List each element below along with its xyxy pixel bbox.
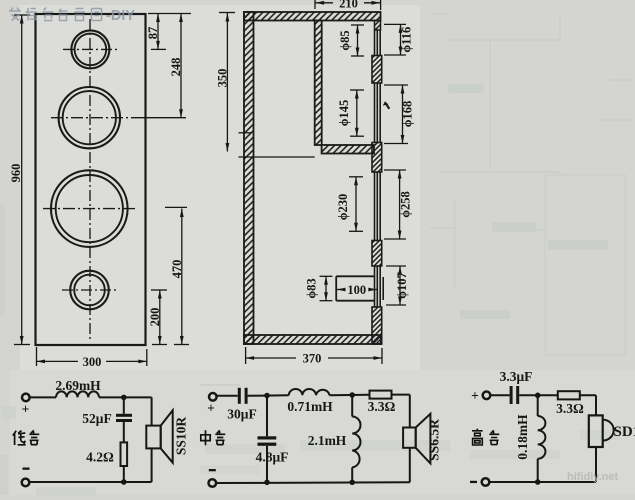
wire + to cap (high) [490, 394, 510, 396]
partition wall [315, 21, 322, 146]
svg-text:350: 350 [215, 69, 229, 88]
terminal - (mid) [209, 479, 217, 487]
dim 350 [219, 13, 315, 158]
svg-text:4.8μF: 4.8μF [256, 450, 289, 465]
wire capacitor to resistor (bass) [123, 422, 125, 442]
svg-text:SS10R: SS10R [174, 417, 189, 456]
baffle woofer hole rebate [375, 172, 381, 241]
svg-text:4.2Ω: 4.2Ω [86, 450, 114, 465]
resistor R3 3.3ohm (high series) [558, 391, 580, 399]
resistor R2 3.3ohm (mid series) [370, 391, 392, 399]
dim 370 [246, 347, 382, 364]
dim 300 [37, 347, 147, 366]
label high channel [472, 429, 499, 445]
svg-text:87: 87 [146, 27, 160, 40]
wire down to tweeter [595, 395, 597, 415]
panel vertical centerline [89, 19, 91, 341]
svg-text:248: 248 [169, 58, 183, 77]
watermark top-left [9, 8, 135, 25]
dim phi258 [384, 170, 406, 239]
wire down to mid speaker [409, 395, 411, 428]
terminal + (mid) [209, 393, 217, 401]
svg-text:+: + [22, 402, 30, 417]
svg-text:3.3Ω: 3.3Ω [368, 399, 396, 414]
dim 200 [151, 290, 167, 345]
dim phi83 [320, 276, 333, 300]
baffle tweeter hole rebate [375, 30, 381, 56]
shelf board [322, 145, 374, 154]
dim 100 [336, 289, 377, 291]
svg-text:ϕ258: ϕ258 [399, 191, 413, 218]
svg-text:370: 370 [303, 352, 322, 366]
node E (mid bottom junction 1) [264, 480, 270, 486]
wire resistor to speaker (mid) [392, 394, 410, 396]
svg-text:hifidiy.net: hifidiy.net [567, 471, 618, 483]
node A (bass top junction) [121, 395, 127, 401]
terminal + (bass) [22, 394, 30, 402]
high bottom rail wire [489, 481, 596, 483]
svg-text:-DIY: -DIY [106, 8, 135, 24]
svg-text:ϕ116: ϕ116 [400, 27, 414, 53]
svg-text:ϕ83: ϕ83 [305, 278, 319, 298]
svg-text:ϕ85: ϕ85 [338, 30, 352, 50]
wire down to woofer (bass) [151, 397, 153, 425]
svg-text:300: 300 [83, 355, 102, 369]
svg-text:ϕ107: ϕ107 [395, 272, 409, 299]
inductor L1 2.69mH (bass series) [56, 391, 99, 397]
wire L3 to bottom rail [351, 467, 353, 482]
svg-text:SD1: SD1 [614, 424, 635, 440]
node C (mid junction 1) [264, 393, 270, 399]
label bass channel [13, 430, 40, 445]
node G (high junction) [535, 393, 541, 399]
svg-text:SS6.5R: SS6.5R [427, 419, 442, 461]
tweeter centerline [63, 48, 118, 50]
baffle block between tweeter and mid holes [372, 56, 382, 84]
port centerline [62, 289, 118, 291]
wire + to cap (mid) [216, 395, 237, 397]
mid bottom rail wire [216, 481, 410, 484]
dim 470 [165, 207, 189, 344]
baffle block at shelf [372, 143, 382, 173]
svg-text:2.1mH: 2.1mH [308, 433, 347, 448]
wire cap to inductor (mid top rail) [248, 394, 289, 397]
dim 87 [148, 14, 191, 50]
dim phi145 [350, 90, 364, 136]
cabinet bottom wall [244, 335, 381, 344]
cabinet left wall [244, 12, 254, 344]
baffle block between woofer and port [372, 241, 382, 267]
dim 210 [315, 0, 381, 10]
inductor L4 0.18mH (high shunt) [537, 395, 539, 416]
svg-text:+: + [207, 401, 215, 416]
port hole circles [70, 271, 109, 310]
svg-text:0.18mH: 0.18mH [515, 414, 530, 460]
terminal - (high) [482, 478, 490, 486]
tweeter SD19 dome [589, 415, 603, 447]
node D (mid junction 2) [349, 392, 355, 398]
svg-text:ϕ168: ϕ168 [401, 101, 415, 128]
svg-text:960: 960 [9, 164, 23, 183]
capacitor C3 4.8uF (mid shunt) [266, 396, 268, 437]
mid hole circles [59, 87, 120, 148]
woofer centerline [43, 208, 137, 210]
dim phi230 [349, 177, 363, 232]
baffle mid hole rebate [375, 83, 381, 143]
svg-text:3.3Ω: 3.3Ω [556, 401, 584, 416]
terminal + (high) [483, 392, 491, 400]
dim phi107 [386, 266, 406, 305]
wire - terminal to speaker (bass bottom rail) [29, 481, 152, 483]
front panel outline [36, 14, 146, 345]
wire inductor to speaker corner (bass top rail) [99, 396, 152, 398]
speaker SS6.5R (midrange) [403, 428, 416, 448]
port tube [336, 276, 374, 300]
wire node to capacitor (bass) [123, 397, 125, 413]
svg-text:ϕ145: ϕ145 [337, 100, 351, 127]
dim phi168 [384, 85, 408, 144]
inductor L3 2.1mH (mid shunt) [351, 395, 353, 417]
capacitor C1 52uF (bass shunt) [116, 414, 132, 422]
wire cap to resistor (high top rail) [519, 394, 558, 396]
label mid channel [201, 430, 226, 445]
wire resistor to tweeter (high) [580, 394, 596, 396]
baffle port hole rebate [375, 266, 384, 307]
inductor L2 0.71mH (mid series) [289, 389, 330, 395]
dim phi85 [351, 25, 364, 56]
svg-text:ϕ230: ϕ230 [336, 194, 350, 221]
node H (high bottom junction) [535, 479, 541, 485]
svg-text:2.69mH: 2.69mH [55, 378, 101, 393]
dim 248 [131, 14, 186, 118]
leader pointer arrow [383, 101, 389, 105]
mid centerline [51, 117, 128, 119]
capacitor C4 3.3uF (high series) [510, 386, 520, 404]
capacitor C2 30uF (mid series) [238, 388, 248, 404]
tweeter hole circles [71, 30, 109, 68]
wire + to inductor (bass) [29, 396, 56, 398]
node B (bass bottom junction) [121, 479, 127, 485]
svg-text:470: 470 [170, 260, 184, 279]
baffle top corner block [375, 21, 381, 31]
wire L4 to bottom rail [537, 459, 539, 482]
svg-text:100: 100 [347, 283, 366, 297]
terminal - (bass) [22, 479, 30, 487]
node F (mid bottom junction 2) [349, 480, 355, 486]
dim 960 [14, 15, 30, 345]
svg-text:200: 200 [148, 308, 162, 327]
svg-text:+: + [471, 388, 479, 403]
svg-text:30μF: 30μF [227, 407, 256, 422]
svg-text:0.71mH: 0.71mH [287, 399, 333, 414]
speaker SS10R (woofer) [146, 426, 160, 449]
wire inductor to resistor (mid) [330, 394, 370, 397]
svg-text:3.3μF: 3.3μF [500, 369, 533, 384]
cabinet top wall [244, 12, 381, 21]
resistor R1 4.2ohm (bass shunt) [121, 442, 128, 466]
woofer hole circles [51, 170, 128, 247]
svg-text:210: 210 [339, 0, 358, 11]
baffle bottom block [372, 307, 382, 344]
wire cap3 to bottom rail [266, 446, 268, 483]
dim phi116 [384, 24, 406, 55]
wire resistor to bottom rail (bass) [123, 466, 125, 482]
faint bleed-through (back of page) [200, 12, 634, 385]
svg-text:52μF: 52μF [82, 411, 111, 426]
